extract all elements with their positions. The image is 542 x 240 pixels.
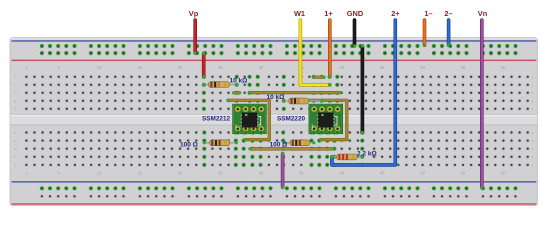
svg-text:30: 30 xyxy=(259,171,264,176)
svg-text:h: h xyxy=(15,91,17,95)
wire tan loop around U1 xyxy=(226,99,269,141)
resistor R5 2.2 kOhm xyxy=(330,154,363,160)
svg-text:60: 60 xyxy=(501,65,506,70)
svg-text:GND: GND xyxy=(347,9,364,18)
wire 1+ orange xyxy=(328,20,331,78)
svg-text:1+: 1+ xyxy=(324,9,333,18)
svg-text:40: 40 xyxy=(339,65,344,70)
wire tan loop around U2 xyxy=(302,99,347,141)
svg-text:a: a xyxy=(15,163,17,167)
svg-text:1–: 1– xyxy=(424,9,432,18)
svg-text:50: 50 xyxy=(420,171,425,176)
svg-text:20: 20 xyxy=(178,171,183,176)
svg-text:a: a xyxy=(532,163,534,167)
svg-text:10: 10 xyxy=(97,65,102,70)
svg-text:SSM2220: SSM2220 xyxy=(277,116,306,123)
svg-text:f: f xyxy=(532,107,533,111)
resistor R4 100 Ohm xyxy=(283,140,315,146)
svg-text:h: h xyxy=(532,91,534,95)
svg-text:g: g xyxy=(532,99,534,103)
op-amp module U2 SSM2220 xyxy=(309,104,343,134)
svg-text:j: j xyxy=(14,75,16,79)
wire tan long row c xyxy=(248,147,334,150)
connected holes at module pin columns row e xyxy=(236,130,340,134)
svg-text:Vn: Vn xyxy=(478,9,488,18)
svg-text:100 Ω: 100 Ω xyxy=(180,142,198,149)
svg-text:W1: W1 xyxy=(294,9,305,18)
svg-text:SSM2212: SSM2212 xyxy=(202,116,231,123)
svg-text:j: j xyxy=(531,75,533,79)
svg-text:Vp: Vp xyxy=(189,9,199,18)
svg-text:e: e xyxy=(15,131,17,135)
bottom power rail blue line xyxy=(12,181,537,183)
svg-text:g: g xyxy=(15,99,17,103)
svg-text:25: 25 xyxy=(218,171,223,176)
wire purple jumper row c to bottom - rail xyxy=(281,152,284,189)
svg-text:c: c xyxy=(532,147,534,151)
wire red jumper + rail to row f xyxy=(202,52,205,79)
svg-text:55: 55 xyxy=(461,65,466,70)
wire Vp red to + rail xyxy=(194,20,197,55)
svg-text:10 kΩ: 10 kΩ xyxy=(230,78,248,85)
svg-text:f: f xyxy=(15,107,16,111)
svg-text:45: 45 xyxy=(380,65,385,70)
svg-text:45: 45 xyxy=(380,171,385,176)
op-amp module U1 SSM2212 xyxy=(233,104,267,134)
wire tan stub row h xyxy=(232,91,241,94)
top power rail blue line xyxy=(12,40,537,42)
svg-text:2+: 2+ xyxy=(391,9,400,18)
svg-text:60: 60 xyxy=(501,171,506,176)
svg-text:35: 35 xyxy=(299,171,304,176)
wire 2+ blue xyxy=(330,20,395,165)
resistor R1 10 kOhm xyxy=(203,82,238,88)
svg-text:10 kΩ: 10 kΩ xyxy=(267,94,285,101)
svg-text:20: 20 xyxy=(178,65,183,70)
svg-text:40: 40 xyxy=(339,171,344,176)
bottom power rail red line xyxy=(12,203,537,204)
svg-text:d: d xyxy=(15,139,17,143)
svg-text:50: 50 xyxy=(420,65,425,70)
svg-text:d: d xyxy=(532,139,534,143)
wire GND black jumper rail to row e xyxy=(361,44,364,134)
svg-text:25: 25 xyxy=(218,65,223,70)
svg-text:30: 30 xyxy=(259,65,264,70)
svg-text:1: 1 xyxy=(235,124,238,129)
wire 1- orange to - rail xyxy=(423,20,426,47)
svg-text:c: c xyxy=(15,147,17,151)
breadboard body xyxy=(10,38,538,206)
svg-text:1: 1 xyxy=(311,124,314,129)
svg-text:55: 55 xyxy=(461,171,466,176)
svg-text:10: 10 xyxy=(97,171,102,176)
svg-text:100 Ω: 100 Ω xyxy=(270,142,288,149)
svg-text:e: e xyxy=(532,131,534,135)
wire W1 yellow xyxy=(300,20,331,86)
wire tan stub row f xyxy=(312,76,325,79)
wire 2- blue to - rail xyxy=(447,20,450,47)
svg-text:b: b xyxy=(15,155,17,159)
top power rail red line xyxy=(12,60,537,62)
svg-text:2–: 2– xyxy=(444,9,452,18)
breadboard column numbers and row letters xyxy=(25,65,506,176)
svg-text:2.2 kΩ: 2.2 kΩ xyxy=(357,151,377,158)
resistor R2 10 kOhm xyxy=(282,98,324,104)
wire Vn purple to bottom - rail xyxy=(480,20,483,189)
svg-text:b: b xyxy=(532,155,534,159)
wire tan long row h xyxy=(249,91,342,94)
svg-text:15: 15 xyxy=(137,65,142,70)
svg-text:15: 15 xyxy=(137,171,142,176)
wire GND black to - rail xyxy=(353,20,356,47)
resistor R3 100 Ohm xyxy=(203,140,238,146)
